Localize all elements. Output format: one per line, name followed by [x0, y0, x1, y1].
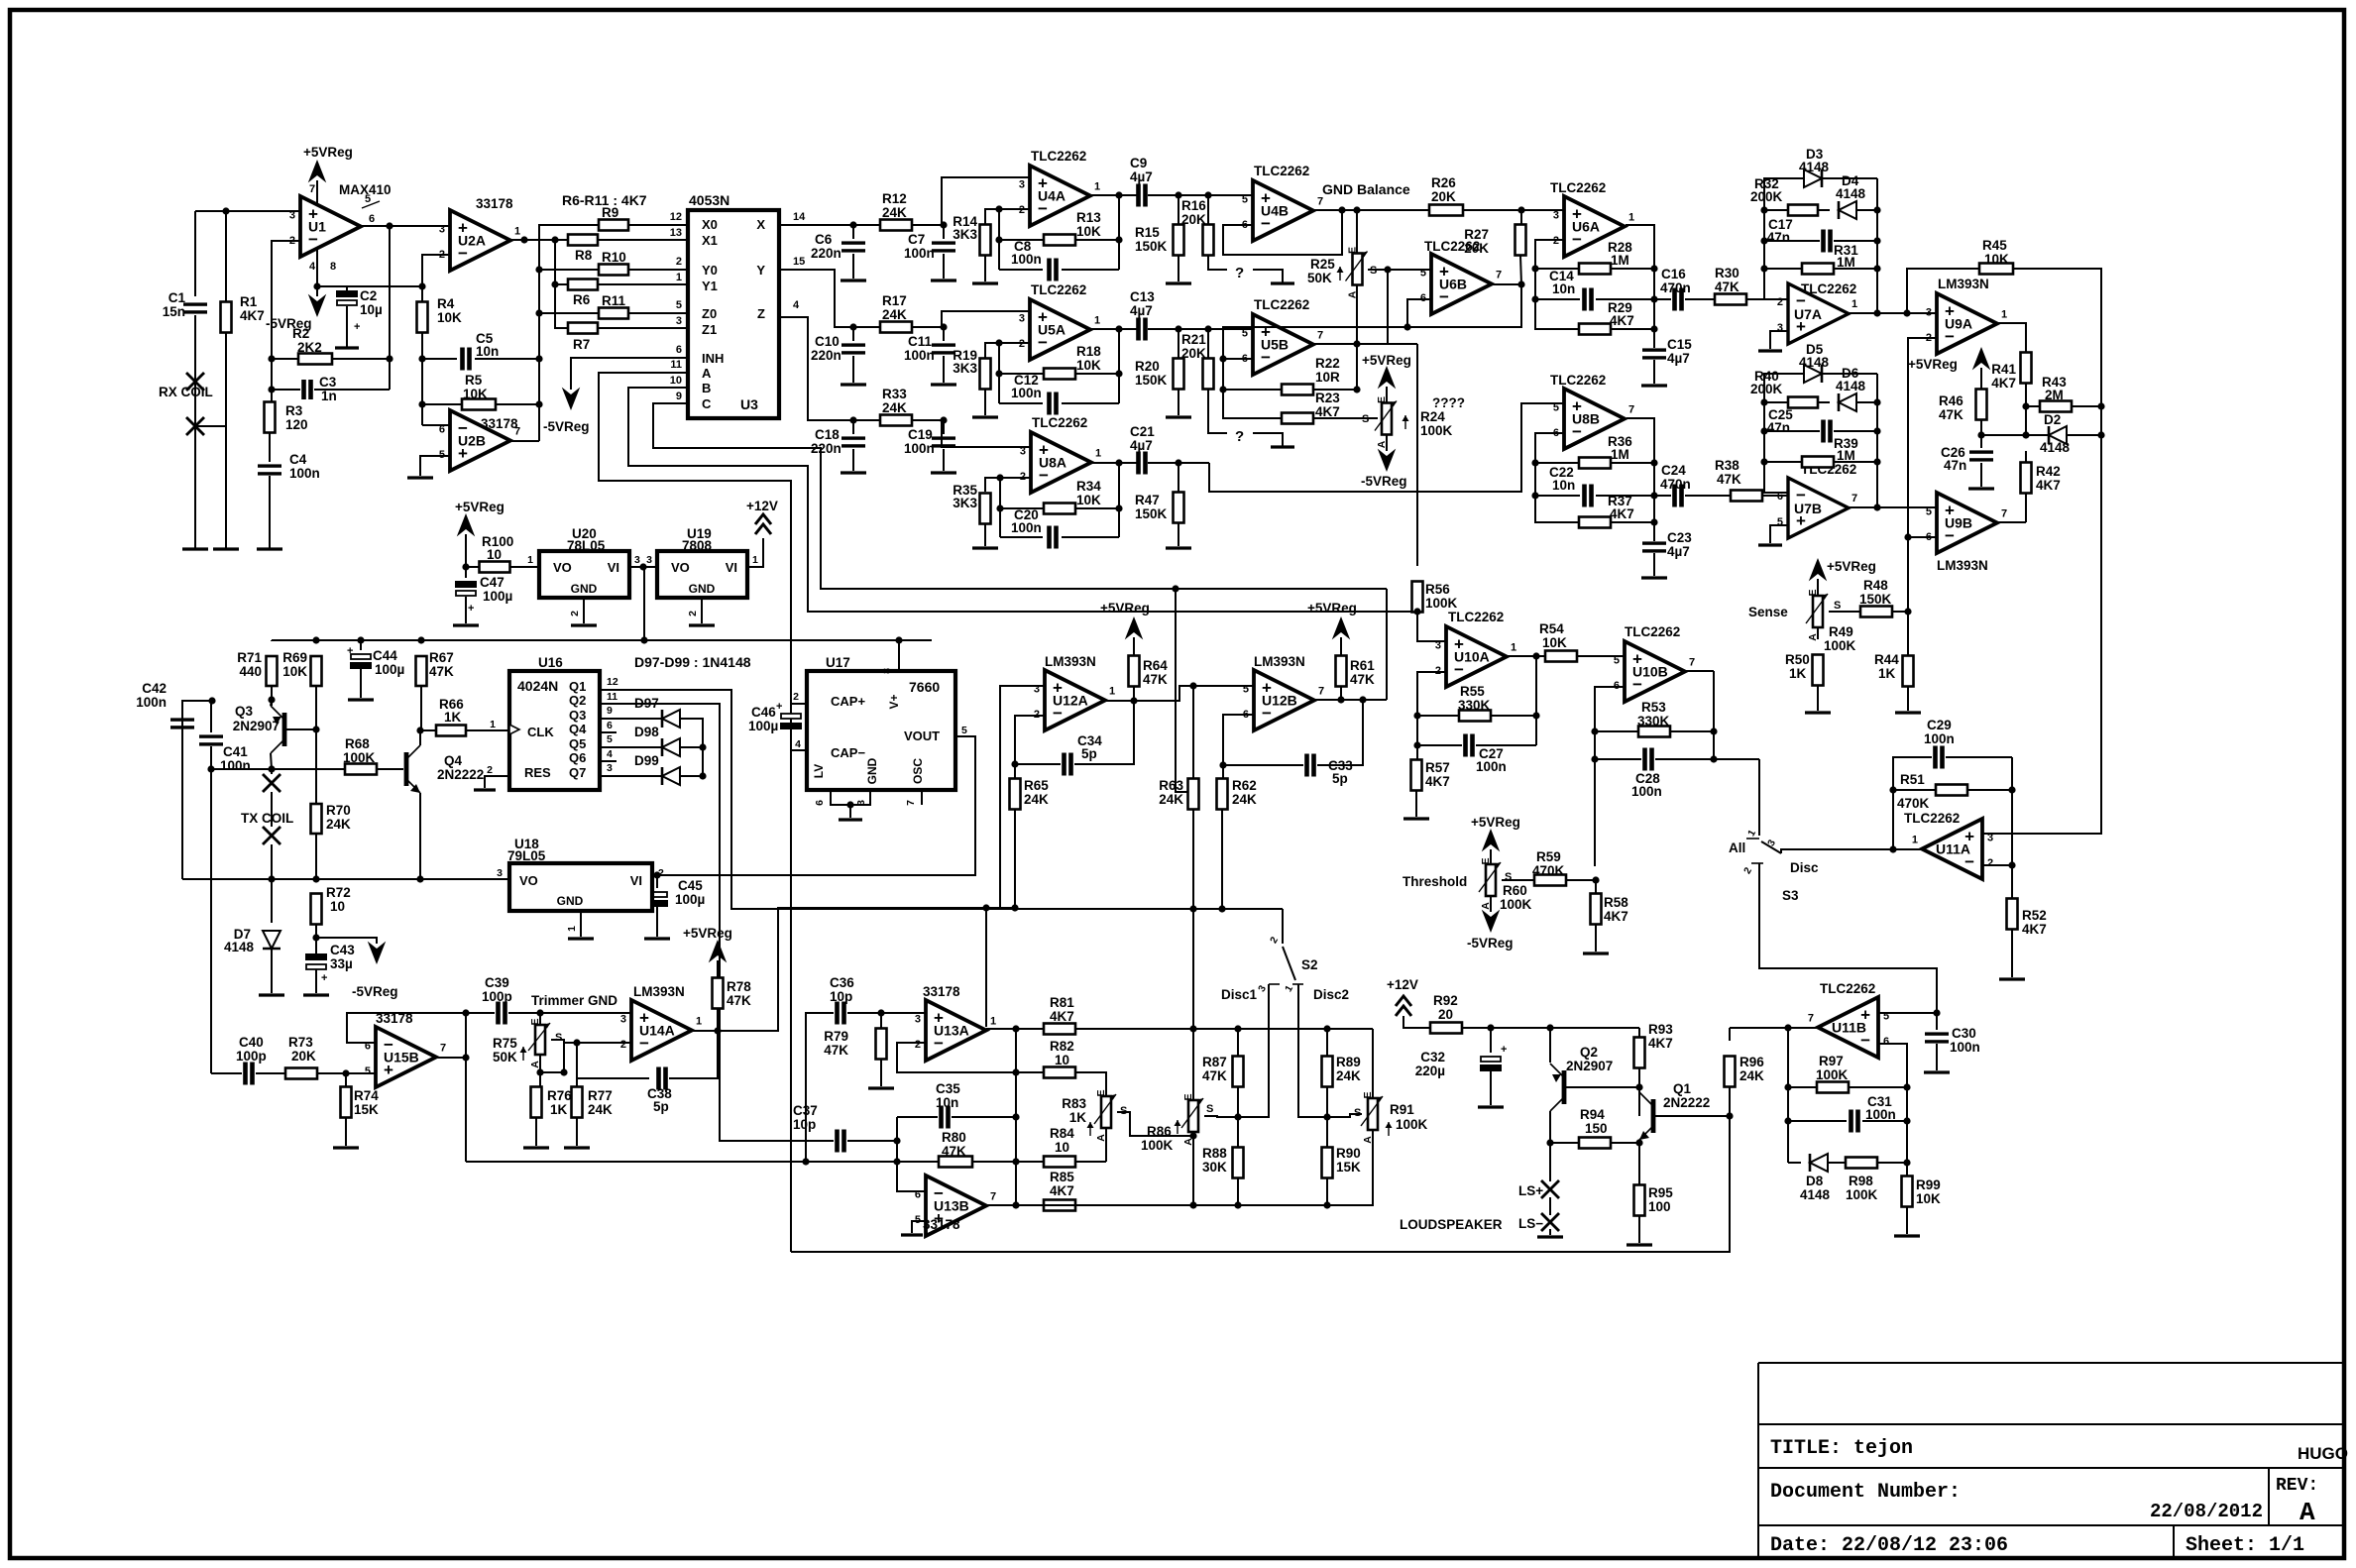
- op-amp U8A TLC2262: [1031, 432, 1091, 493]
- svg-text:X0: X0: [702, 217, 718, 232]
- svg-text:24K: 24K: [1336, 1068, 1361, 1083]
- wire R86 A: [1192, 1132, 1194, 1136]
- svg-text:100n: 100n: [1476, 759, 1507, 774]
- node C41 top: [208, 697, 215, 704]
- capacitor C29 100n: [1933, 746, 1938, 769]
- svg-text:R58: R58: [1604, 895, 1628, 910]
- svg-text:2: 2: [687, 611, 699, 616]
- svg-text:4: 4: [793, 299, 800, 311]
- power +5VReg (R64): [1127, 618, 1142, 637]
- capacitor C43 33u: [305, 953, 327, 960]
- svg-text:S: S: [1362, 413, 1369, 425]
- svg-text:R49: R49: [1829, 624, 1853, 639]
- wire U11A -in: [1982, 864, 2012, 866]
- svg-text:E: E: [1095, 1089, 1107, 1096]
- svg-text:14: 14: [793, 211, 806, 223]
- node C22 left: [1531, 492, 1538, 499]
- node R59 right: [1592, 876, 1599, 883]
- svg-text:RX COIL: RX COIL: [159, 385, 213, 399]
- ground (LS): [1537, 1235, 1563, 1238]
- wire out down to bottom rail: [465, 1013, 467, 1162]
- svg-text:50K: 50K: [493, 1050, 517, 1064]
- node R43 left: [2022, 402, 2029, 409]
- svg-text:U17: U17: [826, 655, 850, 670]
- ground (R35): [972, 546, 998, 549]
- svg-text:C6: C6: [815, 232, 833, 247]
- wire U13B +in gnd: [912, 1221, 926, 1233]
- capacitor C18 220n: [852, 420, 854, 434]
- wire U8A out: [1091, 462, 1137, 464]
- ground (R20): [1166, 415, 1191, 418]
- svg-text:100µ: 100µ: [375, 662, 404, 677]
- svg-text:2: 2: [915, 1039, 921, 1051]
- svg-text:15K: 15K: [1336, 1160, 1361, 1175]
- svg-text:10: 10: [330, 899, 345, 914]
- svg-text:C40: C40: [239, 1035, 264, 1050]
- svg-text:LM393N: LM393N: [633, 984, 685, 999]
- svg-text:33178: 33178: [923, 1217, 960, 1232]
- svg-text:LM393N: LM393N: [1937, 558, 1988, 573]
- node U7A out: [1873, 309, 1880, 316]
- node R21 top: [1204, 325, 1211, 332]
- ground (C18): [841, 471, 866, 474]
- svg-text:R65: R65: [1024, 778, 1049, 793]
- svg-text:C18: C18: [815, 427, 840, 442]
- node R5 left: [418, 400, 425, 407]
- svg-text:3: 3: [676, 315, 682, 327]
- node R39 right: [1873, 458, 1880, 465]
- svg-text:C1: C1: [168, 290, 186, 305]
- resistor R28 1M: [1535, 268, 1579, 270]
- node R13 right: [1115, 236, 1122, 243]
- node U1 +in junction: [222, 207, 229, 214]
- svg-text:TLC2262: TLC2262: [1031, 282, 1086, 297]
- svg-text:U4A: U4A: [1038, 188, 1066, 204]
- svg-text:-5VReg: -5VReg: [352, 984, 398, 999]
- resistor R37 4K7: [1579, 517, 1611, 528]
- svg-text:33µ: 33µ: [330, 956, 353, 971]
- resistor R9: [599, 220, 628, 231]
- ground (R76): [523, 1146, 549, 1149]
- power +5VReg (sense): [1811, 560, 1826, 579]
- resistor R48 150K: [1860, 607, 1892, 617]
- resistor R79 47K: [880, 1013, 882, 1028]
- svg-text:1: 1: [1094, 181, 1100, 193]
- svg-text:+: +: [347, 645, 353, 657]
- node U8A out: [1115, 459, 1122, 466]
- wire out feedback col: [1118, 195, 1120, 270]
- svg-text:1: 1: [1511, 642, 1516, 654]
- wire Z feedback col: [1118, 463, 1120, 537]
- svg-text:?: ?: [1235, 428, 1244, 445]
- op-amp U1 MAX410: [300, 196, 361, 257]
- capacitor C25 47n: [1764, 430, 1820, 432]
- node U13B out: [1012, 1201, 1019, 1208]
- wire TX coil down: [271, 769, 273, 774]
- svg-text:100p: 100p: [236, 1049, 267, 1064]
- svg-text:5: 5: [1614, 654, 1620, 666]
- wire left col: [1787, 1028, 1789, 1163]
- svg-text:6: 6: [814, 800, 826, 806]
- wire U20-U19: [629, 566, 657, 568]
- svg-text:4K7: 4K7: [1315, 404, 1340, 419]
- node D98: [699, 743, 706, 750]
- node R2 right: [386, 355, 393, 362]
- wire U9B out: [1997, 521, 2026, 523]
- svg-text:C39: C39: [485, 975, 509, 990]
- svg-text:1: 1: [1094, 315, 1100, 327]
- svg-text:+5VReg: +5VReg: [1362, 353, 1411, 368]
- svg-text:3: 3: [855, 800, 867, 806]
- wire U10B out: [1685, 670, 1714, 672]
- resistor R97 100K: [1788, 1086, 1817, 1088]
- node x905 rail: [893, 1158, 900, 1165]
- diode D4 4148: [1839, 201, 1856, 219]
- ground (R19): [972, 415, 998, 418]
- svg-text:15: 15: [793, 256, 805, 268]
- svg-text:6: 6: [676, 344, 682, 356]
- wire U10A -in: [1417, 672, 1446, 745]
- svg-text:4K7: 4K7: [1610, 506, 1634, 521]
- svg-text:V+: V+: [887, 694, 901, 709]
- node C31 left: [1784, 1117, 1791, 1124]
- node C14 left: [1531, 295, 1538, 302]
- svg-text:2: 2: [1435, 665, 1441, 677]
- svg-text:R30: R30: [1715, 266, 1739, 280]
- svg-text:TLC2262: TLC2262: [1820, 981, 1875, 996]
- svg-text:47K: 47K: [727, 993, 751, 1008]
- svg-text:3: 3: [620, 1013, 626, 1025]
- wire to C36: [806, 1013, 834, 1162]
- wire U4A out: [1090, 194, 1137, 196]
- node x1780 R32: [1760, 206, 1767, 213]
- wire U11B out: [1730, 1027, 1818, 1029]
- node x1780 R39: [1760, 458, 1767, 465]
- wire U9A -in: [1908, 338, 1937, 655]
- svg-text:R9: R9: [602, 205, 618, 220]
- svg-text:100K: 100K: [1420, 423, 1453, 438]
- svg-text:20K: 20K: [1431, 189, 1456, 204]
- svg-text:C23: C23: [1667, 530, 1692, 545]
- resistor R71 440: [271, 640, 273, 641]
- svg-text:CAP+: CAP+: [831, 694, 865, 709]
- wire U18 gnd pin1: [580, 911, 582, 937]
- svg-text:3: 3: [1926, 306, 1932, 318]
- svg-text:4µ7: 4µ7: [1667, 351, 1690, 366]
- svg-text:LOUDSPEAKER: LOUDSPEAKER: [1400, 1217, 1503, 1232]
- svg-text:1: 1: [676, 272, 682, 283]
- svg-text:R79: R79: [824, 1029, 848, 1044]
- svg-text:R1: R1: [240, 294, 258, 309]
- svg-text:R88: R88: [1202, 1146, 1227, 1161]
- resistor R55 330K: [1417, 715, 1459, 717]
- svg-text:1: 1: [1109, 686, 1115, 698]
- resistor R19 3K3: [980, 359, 991, 390]
- svg-text:47K: 47K: [429, 664, 454, 679]
- node D4 right: [1873, 206, 1880, 213]
- node bus316: [535, 309, 542, 316]
- svg-text:6: 6: [1420, 292, 1426, 304]
- svg-text:7: 7: [309, 183, 315, 195]
- svg-text:R92: R92: [1433, 993, 1458, 1008]
- svg-text:R72: R72: [326, 885, 351, 900]
- svg-text:24K: 24K: [882, 307, 907, 322]
- node R51 right: [2008, 786, 2015, 793]
- svg-text:CAP−: CAP−: [831, 745, 865, 760]
- wire Q1 base: [1655, 1115, 1730, 1117]
- svg-text:X: X: [756, 217, 765, 232]
- wire R60 wiper: [1502, 879, 1534, 881]
- svg-text:50K: 50K: [1307, 271, 1332, 285]
- wire U3 B select: [628, 388, 1417, 612]
- wire Q1: [600, 690, 1193, 909]
- wire U2B out: [511, 440, 539, 442]
- power +5VReg (threshold): [1484, 831, 1499, 849]
- svg-text:C42: C42: [142, 681, 167, 696]
- svg-text:220µ: 220µ: [1415, 1064, 1445, 1078]
- wire Q3 to D97: [600, 718, 662, 720]
- svg-text:8: 8: [881, 668, 893, 674]
- svg-text:Z0: Z0: [702, 306, 717, 321]
- svg-text:1: 1: [490, 719, 496, 730]
- LS+ terminal: [1549, 1143, 1551, 1181]
- svg-text:OSC: OSC: [911, 758, 925, 784]
- IC U20 78L05: [539, 551, 629, 598]
- resistor R14 3K3: [980, 225, 991, 256]
- resistor R32 200K: [1764, 209, 1788, 211]
- svg-text:9: 9: [607, 705, 613, 717]
- svg-text:3: 3: [607, 762, 613, 774]
- wire Q2 collector: [1549, 1111, 1551, 1143]
- svg-text:1K: 1K: [550, 1102, 568, 1117]
- svg-text:E: E: [529, 1018, 541, 1025]
- svg-text:+: +: [354, 321, 360, 333]
- svg-text:TITLE: tejon: TITLE: tejon: [1770, 1437, 1913, 1460]
- wire U6A -in: [1535, 240, 1578, 329]
- capacitor C3 1n: [272, 389, 300, 391]
- capacitor C46 100u: [791, 704, 807, 710]
- svg-text:R67: R67: [429, 650, 454, 665]
- resistor R52 4K7: [2007, 899, 2018, 930]
- ground (R77): [564, 1146, 590, 1149]
- svg-text:4148: 4148: [1836, 379, 1866, 393]
- svg-text:2N2222: 2N2222: [1663, 1095, 1710, 1110]
- svg-text:2K2: 2K2: [297, 340, 322, 355]
- bus x560 (U2A out to R6,R7): [555, 240, 568, 328]
- node R48 right: [1904, 608, 1911, 615]
- ground (R47): [1166, 546, 1191, 549]
- resistor R27 20K: [1520, 210, 1522, 224]
- svg-text:2N2907: 2N2907: [1566, 1059, 1613, 1073]
- svg-text:3: 3: [1553, 209, 1559, 221]
- node R15 top: [1175, 191, 1181, 198]
- wire U11B -in: [1878, 1044, 1907, 1163]
- wire U8B -in: [1535, 433, 1578, 522]
- wire U12B loop box: [1386, 589, 1388, 700]
- svg-text:R87: R87: [1202, 1055, 1227, 1069]
- node R65 bottom rail: [1011, 904, 1018, 911]
- wire Q3 emitter diag is part of symbol; connect top: [271, 700, 272, 706]
- svg-text:100µ: 100µ: [483, 589, 512, 604]
- node R81 out: [1189, 1025, 1196, 1032]
- svg-text:7: 7: [990, 1191, 996, 1203]
- svg-text:47K: 47K: [942, 1144, 966, 1159]
- svg-text:100: 100: [1648, 1199, 1671, 1214]
- capacitor C16 470n: [1654, 298, 1671, 300]
- wire U17 pin7 stub: [921, 790, 923, 805]
- wire R86 A down: [1192, 1136, 1194, 1205]
- svg-text:4148: 4148: [1836, 186, 1866, 201]
- svg-text:S: S: [1206, 1103, 1213, 1115]
- resistor R17 24K: [880, 322, 912, 333]
- svg-text:U7A: U7A: [1794, 306, 1822, 322]
- wire C35 left col: [896, 1117, 898, 1141]
- svg-text:S3: S3: [1782, 888, 1799, 903]
- node R74 top: [342, 1069, 349, 1076]
- stub gnd (Y): [1253, 433, 1283, 446]
- node U10B fb: [1710, 755, 1717, 762]
- svg-text:VO: VO: [553, 560, 572, 575]
- svg-text:1K: 1K: [1878, 666, 1896, 681]
- wire R75 to U14A -in: [564, 1042, 631, 1044]
- svg-text:R99: R99: [1916, 1177, 1941, 1192]
- node R26/R27: [1517, 206, 1524, 213]
- svg-text:200K: 200K: [1750, 189, 1783, 204]
- node D2 left: [2022, 431, 2029, 438]
- svg-text:R45: R45: [1982, 238, 2007, 253]
- resistor R99 10K: [1906, 1163, 1908, 1176]
- svg-text:TLC2262: TLC2262: [1904, 811, 1960, 826]
- op-amp U12B LM393N: [1254, 670, 1314, 730]
- node C5 left: [418, 355, 425, 362]
- ground (R79): [868, 1086, 894, 1089]
- svg-text:4K7: 4K7: [1610, 313, 1634, 328]
- svg-text:R83: R83: [1062, 1096, 1086, 1111]
- svg-text:3: 3: [1019, 312, 1025, 324]
- ground (U17): [839, 818, 862, 821]
- resistor R8: [568, 235, 598, 246]
- svg-text:150K: 150K: [1135, 506, 1168, 521]
- svg-text:47n: 47n: [1767, 230, 1790, 245]
- svg-text:R20: R20: [1135, 359, 1160, 374]
- resistor R34 10K: [1000, 507, 1044, 509]
- resistor R26 20K: [1429, 205, 1463, 216]
- resistor R96 24K: [1725, 1057, 1736, 1087]
- svg-text:S: S: [1834, 600, 1841, 612]
- resistor R3 120: [271, 390, 273, 402]
- node R88 bottom: [1234, 1201, 1241, 1208]
- node R62 bottom: [1218, 905, 1225, 912]
- resistor R20 150K: [1178, 329, 1179, 358]
- svg-text:R81: R81: [1050, 995, 1074, 1010]
- node R34 left: [996, 504, 1003, 511]
- wire Y feedback col: [1118, 329, 1120, 403]
- svg-text:R41: R41: [1991, 362, 2016, 377]
- svg-text:R11: R11: [602, 293, 626, 308]
- node R6 left: [551, 280, 558, 287]
- svg-text:C24: C24: [1661, 463, 1686, 478]
- svg-text:7: 7: [1317, 196, 1323, 208]
- resistor R15 150K: [1178, 195, 1179, 224]
- ground (R50): [1805, 711, 1831, 714]
- op-amp U7B TLC2262 (inverted inputs): [1788, 478, 1849, 538]
- diode D3 4148: [1764, 177, 1804, 179]
- svg-text:C35: C35: [936, 1081, 960, 1096]
- svg-text:R60: R60: [1503, 883, 1527, 898]
- power -5VReg (C43): [370, 944, 385, 962]
- capacitor C42 100n: [170, 718, 194, 721]
- ground (C4): [257, 547, 282, 550]
- capacitor C7 100n: [943, 225, 945, 239]
- svg-text:R7: R7: [573, 337, 590, 352]
- capacitor C4 100n: [258, 464, 281, 467]
- svg-text:47n: 47n: [1944, 458, 1966, 473]
- svg-text:R52: R52: [2022, 908, 2047, 923]
- svg-text:VI: VI: [726, 560, 737, 575]
- resistor R40 200K: [1764, 401, 1788, 403]
- diode D5 4148: [1804, 365, 1822, 383]
- svg-text:RES: RES: [524, 765, 551, 780]
- potentiometer R75 50K: [539, 1013, 541, 1026]
- svg-text:150K: 150K: [1859, 592, 1892, 607]
- resistor R21 20K: [1207, 329, 1209, 358]
- wire U12A out: [1105, 686, 1254, 701]
- svg-text:10: 10: [670, 375, 682, 387]
- resistor R92 20: [1403, 1016, 1430, 1028]
- wire R75 wiper loop: [540, 1040, 564, 1072]
- svg-text:100K: 100K: [1824, 638, 1856, 653]
- resistor R18 10K: [999, 373, 1044, 375]
- svg-text:LM393N: LM393N: [1045, 654, 1096, 669]
- wire C41 row: [211, 768, 345, 770]
- svg-text:2: 2: [569, 611, 581, 616]
- ground (C45): [644, 937, 670, 940]
- capacitor C20 100n: [1000, 536, 1043, 538]
- svg-text:U9B: U9B: [1945, 515, 1972, 531]
- svg-text:R64: R64: [1143, 658, 1168, 673]
- wire Q3 base: [286, 728, 316, 730]
- svg-text:10K: 10K: [1076, 493, 1101, 507]
- node C17 right: [1873, 237, 1880, 244]
- svg-text:100K: 100K: [1141, 1138, 1174, 1153]
- svg-text:C4: C4: [289, 452, 307, 467]
- resistor R33 24K: [880, 415, 912, 426]
- svg-text:10K: 10K: [282, 664, 307, 679]
- node R90 bottom: [1323, 1201, 1330, 1208]
- op-amp U12A LM393N: [1045, 670, 1105, 730]
- resistor R10: [599, 265, 628, 276]
- node pin2 X: [995, 205, 1002, 212]
- svg-text:U12B: U12B: [1262, 693, 1297, 709]
- node U9A +in: [1903, 309, 1910, 316]
- svg-text:4K7: 4K7: [1648, 1036, 1673, 1051]
- svg-text:VO: VO: [671, 560, 690, 575]
- wire U3 A select: [599, 373, 791, 1252]
- ground (R99): [1894, 1234, 1920, 1237]
- svg-text:R38: R38: [1715, 458, 1739, 473]
- svg-text:R56: R56: [1425, 582, 1450, 597]
- wire U6A out col: [1626, 225, 1654, 348]
- svg-text:U16: U16: [538, 655, 563, 670]
- node R98 right: [1903, 1159, 1910, 1166]
- svg-text:+5VReg: +5VReg: [1827, 559, 1876, 574]
- ground (R44): [1895, 711, 1921, 714]
- node C22 right: [1650, 492, 1657, 499]
- svg-text:R89: R89: [1336, 1055, 1361, 1069]
- svg-text:Q5: Q5: [569, 736, 586, 751]
- capacitor C31 100n: [1788, 1120, 1847, 1122]
- resistor R5 10K: [422, 403, 462, 405]
